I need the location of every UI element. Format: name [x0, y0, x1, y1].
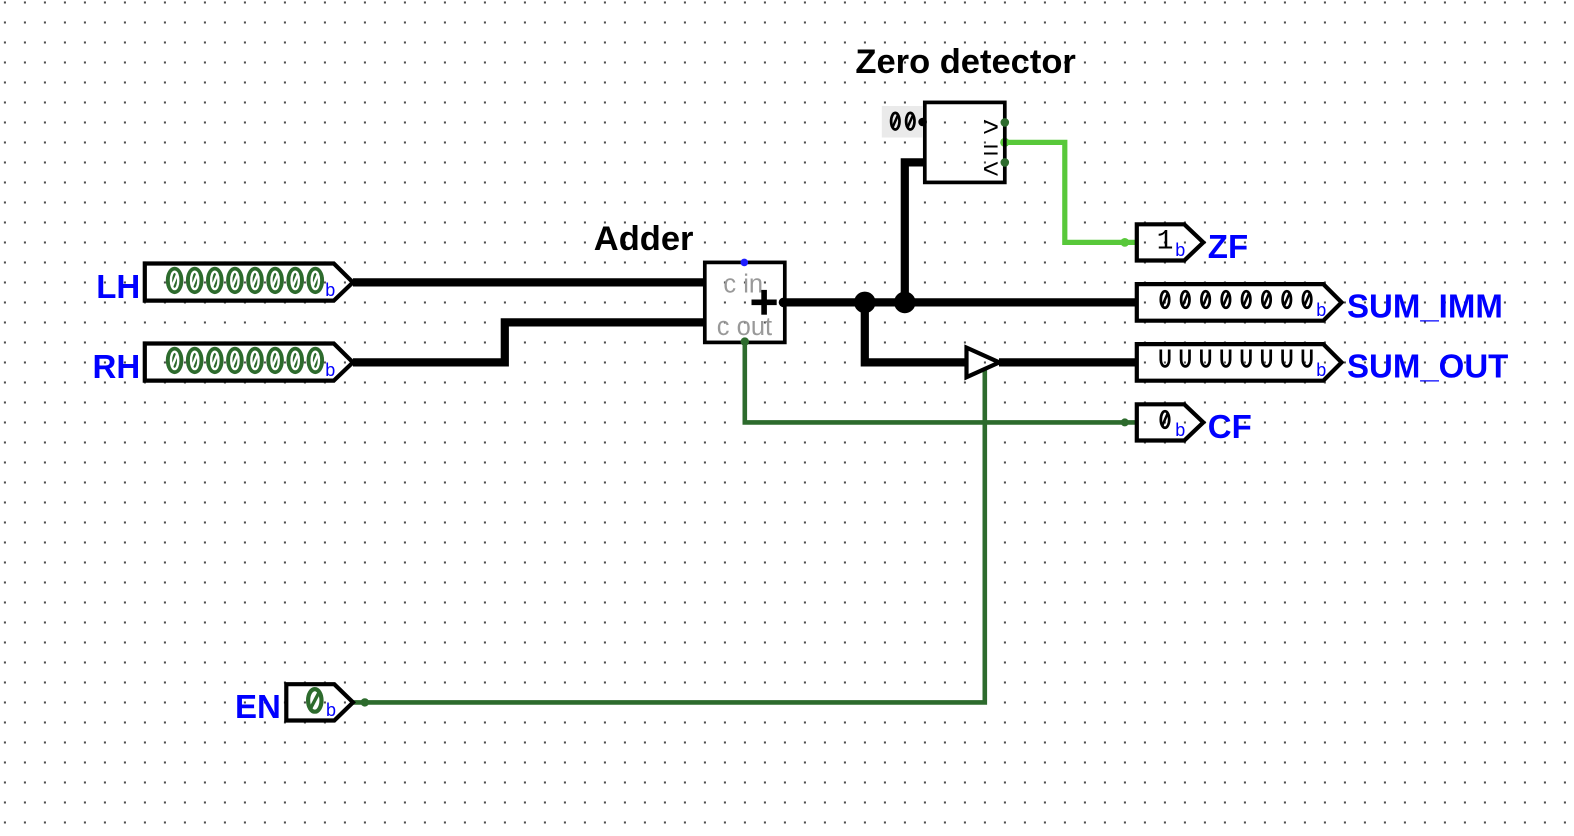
svg-text:b: b	[1175, 420, 1185, 440]
adder pin c_out (green)	[741, 337, 749, 345]
node ZF pin connection	[1120, 238, 1129, 247]
junction sum bus at zero detector branch	[894, 292, 916, 314]
value display LH = 00000000 binary	[166, 267, 335, 300]
input pin RH	[145, 344, 353, 381]
comparator output pin < (unconnected)	[1001, 158, 1010, 167]
input pin LH	[145, 264, 353, 301]
adder output pin cap	[779, 298, 789, 308]
comparator output pin > (unconnected)	[1001, 118, 1010, 127]
wire sum bus to driver input	[865, 302, 967, 362]
adder component box	[705, 262, 785, 342]
node comparator equal output pin	[1000, 138, 1009, 147]
output pin SUM_IMM	[1137, 284, 1342, 321]
node EN pin connection	[361, 698, 369, 706]
wire LH to adder input a	[353, 278, 706, 286]
svg-text:1: 1	[1157, 226, 1174, 257]
svg-text:b: b	[325, 280, 335, 300]
wire adder output s to SUM_IMM	[783, 298, 1137, 306]
svg-text:SUM_IMM: SUM_IMM	[1347, 287, 1503, 324]
wire driver output to SUM_OUT	[999, 358, 1137, 366]
value display SUM_IMM = 00000000 binary	[1161, 291, 1327, 320]
value display ZF = 1 binary	[1157, 226, 1186, 260]
wire EN to driver enable (low)	[353, 370, 985, 703]
value display EN = 0 binary	[308, 689, 336, 720]
svg-text:RH: RH	[93, 348, 141, 385]
node CF pin connection	[1121, 418, 1129, 426]
output pin ZF	[1137, 224, 1204, 260]
svg-text:c out: c out	[717, 313, 772, 341]
adder pin c_in (unconnected, blue)	[741, 259, 749, 267]
svg-text:EN: EN	[235, 688, 281, 725]
wire adder c_out to CF (low)	[745, 342, 1136, 422]
wire sum bus to zero detector input	[905, 162, 925, 302]
output pin SUM_OUT	[1137, 344, 1342, 381]
wire RH to adder input b	[353, 322, 706, 362]
constant output pin node	[918, 118, 927, 127]
svg-text:b: b	[325, 360, 335, 380]
svg-text:b: b	[1316, 360, 1326, 380]
driver (tri-state buffer)	[967, 348, 1000, 378]
svg-text:CF: CF	[1208, 408, 1252, 445]
input pin EN	[286, 684, 353, 720]
svg-text:b: b	[1175, 240, 1185, 260]
svg-text:<: <	[983, 153, 999, 184]
value display SUM_OUT = UUUUUUUU (undefined)	[1161, 350, 1327, 380]
adder plus symbol	[752, 290, 777, 315]
comparator box (zero detector)	[925, 102, 1005, 182]
junction sum bus at driver branch	[854, 292, 876, 314]
svg-text:ZF: ZF	[1208, 228, 1248, 265]
svg-text:Zero detector: Zero detector	[855, 43, 1075, 81]
svg-text:SUM_OUT: SUM_OUT	[1347, 347, 1508, 384]
output pin CF	[1137, 404, 1204, 440]
value display RH = 00000000 binary	[166, 347, 335, 380]
value display CF = 0 binary	[1161, 411, 1185, 440]
svg-text:c in: c in	[723, 271, 763, 299]
svg-text:Adder: Adder	[594, 220, 694, 258]
constant 00 background	[882, 106, 923, 138]
svg-text:LH: LH	[96, 268, 140, 305]
svg-text:b: b	[1316, 300, 1326, 320]
constant value 00	[891, 113, 914, 130]
svg-text:b: b	[326, 700, 336, 720]
wire zero detector equal output to ZF (high)	[1005, 142, 1136, 242]
